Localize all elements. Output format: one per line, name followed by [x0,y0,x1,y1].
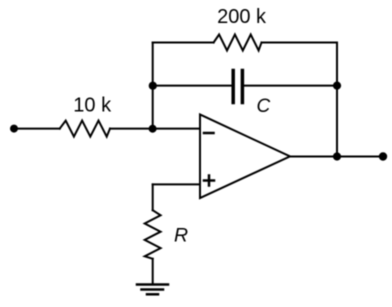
svg-text:200 k: 200 k [217,6,267,28]
svg-text:10 k: 10 k [73,95,112,117]
svg-text:R: R [174,225,188,247]
svg-text:C: C [257,96,271,117]
